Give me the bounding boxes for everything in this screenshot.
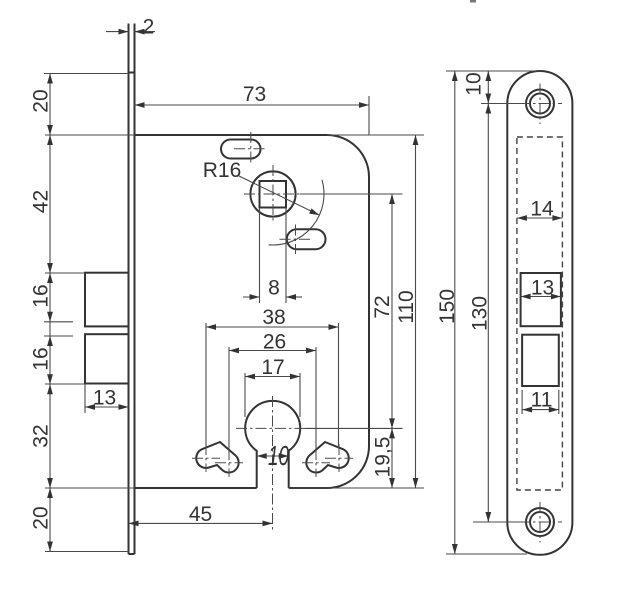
svg-text:150: 150: [436, 289, 459, 324]
extension line y=336 (chain stub): [44, 335, 73, 337]
svg-text:10: 10: [463, 72, 486, 95]
R16 radius arc around follower: [269, 180, 324, 245]
follower centerlines: [244, 165, 308, 222]
svg-text:17: 17: [261, 356, 284, 379]
cylinder keyhole (circle d17 merged with slot): [245, 401, 300, 488]
svg-text:45: 45: [189, 503, 212, 526]
extension line y=135 (body top, left): [45, 134, 135, 136]
dimension 130: [487, 104, 489, 523]
extension line y=73.5: [44, 73, 129, 75]
right heart-shaped handle screw hole (mirrored): [306, 442, 348, 473]
dimension 11: [522, 409, 559, 411]
dimension 17: [245, 376, 300, 378]
dimension 8 (square hole): [259, 208, 261, 303]
svg-text:16: 16: [30, 284, 53, 307]
bottom screw hole centerlines: [519, 502, 562, 543]
svg-text:20: 20: [30, 89, 53, 112]
faceplate (left view, edge-on): [129, 24, 135, 555]
svg-text:14: 14: [530, 198, 554, 221]
dimension 14: [517, 217, 563, 219]
stray cropped mark at top edge: [470, 0, 476, 3]
left heart centerlines: [192, 444, 243, 477]
square hole 13 (latch opening): [521, 273, 561, 326]
latch bolt (protruding left): [85, 273, 129, 327]
top screw hole outer: [526, 90, 554, 118]
dimension 11 extension lines: [521, 390, 523, 414]
left dimension chain 20/42/16/16/32/20: [49, 74, 51, 552]
svg-text:26: 26: [263, 331, 286, 354]
lower oval slot centerlines: [280, 225, 311, 255]
svg-text:20: 20: [30, 506, 53, 529]
svg-text:72: 72: [371, 295, 394, 318]
follower circle (handle hub): [250, 171, 295, 216]
extension line y=322 (chain stub): [44, 321, 73, 323]
extension line bottom screw y=522: [473, 521, 527, 523]
dimension 26: [229, 350, 316, 352]
extension line body top y=135 right: [327, 134, 424, 136]
dimension 72: [391, 194, 393, 428]
dimension 38: [206, 326, 339, 328]
dimension 13 (hole width): [521, 296, 561, 298]
svg-text:110: 110: [395, 290, 418, 323]
svg-text:R16: R16: [203, 159, 242, 182]
top screw hole centerlines: [519, 84, 562, 125]
R16 leader line and arrow: [239, 176, 319, 215]
top oval slot (fixing hole): [221, 140, 261, 159]
extension line body bottom y=488 right: [289, 487, 424, 489]
extension line y=488 (body bottom, left): [45, 487, 135, 489]
deadbolt (protruding left): [85, 334, 129, 383]
extension line y=384: [45, 383, 85, 385]
extension line plate top y=71: [446, 70, 541, 72]
dimension 26 extension lines: [228, 347, 230, 452]
dimension 150: [454, 71, 456, 554]
svg-text:16: 16: [30, 347, 53, 370]
svg-text:73: 73: [243, 83, 266, 106]
square hole 11 (deadbolt opening): [522, 335, 559, 386]
cylinder horizontal centerline: [236, 427, 310, 429]
bottom screw hole outer: [526, 508, 554, 536]
dashed lock case silhouette: [517, 137, 563, 490]
extension line follower center y=194: [300, 193, 403, 195]
dimension 73 (case width): [368, 96, 370, 135]
svg-text:13: 13: [93, 387, 116, 410]
strike/face plate outline (front view): [507, 71, 572, 555]
svg-text:8: 8: [268, 277, 280, 300]
svg-text:19,5: 19,5: [372, 437, 395, 478]
extension line cylinder center y=428.4: [305, 427, 403, 429]
svg-text:42: 42: [30, 190, 53, 213]
svg-text:10: 10: [268, 440, 289, 471]
extension line y=551.5 (chain bottom): [45, 551, 129, 553]
right heart centerlines: [302, 444, 353, 477]
dimension 13 (bolt protrusion): [84, 384, 86, 414]
extension line plate bottom y=554: [446, 553, 527, 555]
dimension 45: [129, 522, 273, 524]
bottom screw hole inner: [530, 512, 550, 532]
follower square hole 8x8: [260, 181, 287, 208]
dimension 110: [415, 135, 417, 488]
svg-text:11: 11: [531, 389, 553, 412]
top screw hole inner: [530, 94, 550, 114]
dimension 2 (faceplate thickness): [106, 31, 129, 33]
svg-text:2: 2: [143, 16, 155, 39]
svg-text:32: 32: [30, 424, 53, 447]
cylinder vertical centerline: [272, 396, 274, 531]
left heart-shaped handle screw hole: [196, 442, 238, 473]
lock case body outline: [135, 135, 370, 488]
svg-text:130: 130: [468, 296, 491, 331]
dimension 19,5: [391, 428, 393, 488]
extension line y=273: [45, 272, 85, 274]
dimension 10 (cylinder slot): [257, 455, 289, 457]
lower oval slot (fixing hole): [287, 229, 326, 249]
dimension 10 (top screw offset): [487, 71, 489, 104]
dimension 38 extension lines: [205, 323, 207, 449]
top oval slot centerlines: [234, 132, 266, 164]
svg-text:13: 13: [531, 277, 554, 300]
extension line screw center y=103.5: [481, 103, 527, 105]
svg-text:38: 38: [262, 306, 285, 329]
dimension 17 extension lines: [244, 373, 246, 417]
